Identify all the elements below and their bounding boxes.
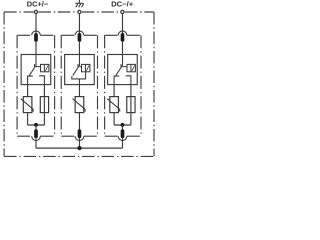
module 3 bottom plug arc (118, 136, 127, 140)
branch wires out of box 3 (113, 85, 115, 97)
thermal disconnector F1 top (black) (34, 33, 38, 42)
terminal DC+/- (34, 10, 37, 13)
thermal disconnector bottom 2 (black) (78, 129, 82, 138)
module 2 top plug arc (75, 31, 84, 35)
thermal disconnector bottom 3 (black) (121, 129, 125, 138)
wire to switch box 1 (35, 42, 37, 55)
node module 1 (34, 123, 38, 127)
right contact hook 3 (126, 76, 131, 85)
module 1 top plug arc (32, 31, 41, 35)
module 2 dash-dot boundary with plug arcs (61, 35, 97, 136)
common earth bus (36, 147, 123, 149)
wire into switch 3 (122, 55, 124, 66)
fuse link to mini fuse 1 (36, 66, 41, 68)
mini fuse body 2 (82, 64, 90, 71)
switch blade 3 (116, 65, 123, 76)
wire to lower disconnector 1 (35, 125, 37, 131)
ground / earth symbol (PE, center top) (75, 0, 83, 7)
branch wires out of box 1 (27, 85, 29, 97)
thermal disconnector bottom 1 (black) (34, 129, 38, 138)
varistor RV1 (23, 97, 32, 113)
svg-text:DC−/+: DC−/+ (111, 0, 134, 9)
left contact hook 3 (114, 76, 119, 85)
terminal PE (78, 10, 81, 13)
fuse link to mini fuse 2 (79, 66, 81, 68)
mini fuse body 3 (127, 64, 135, 71)
outer enclosure dash-dot border (4, 12, 154, 156)
wire to lower disconnector 3 (122, 125, 124, 131)
wire into switch 2 (78, 55, 80, 66)
module 2 bottom plug arc (75, 136, 84, 140)
fuse link to mini fuse 3 (123, 66, 128, 68)
join bar module 3 (114, 124, 131, 126)
wire below varistor 3 (113, 113, 115, 125)
thermal disconnector top 3 (black) (121, 33, 125, 42)
SCI switch/fuse box 3 (108, 55, 138, 85)
wire PE terminal to module 2 (78, 14, 80, 35)
switch contact tick 1 (34, 64, 36, 67)
wire to switch box 3 (122, 42, 124, 55)
wire terminal to module 3 (122, 14, 124, 35)
svg-text:DC+/−: DC+/− (27, 0, 49, 9)
thermal disconnector top 2 (black) (78, 33, 82, 42)
SCI switch/fuse box 1 (21, 55, 51, 85)
switch blade 2 (73, 65, 80, 76)
module 1 bottom plug arc (32, 136, 41, 140)
left contact leg 2 (72, 72, 86, 79)
wire to switch box 2 (78, 42, 80, 55)
switch contact tick 2 (77, 64, 79, 67)
wire below varistor 1 (27, 113, 29, 125)
wire module 3 to bus (122, 138, 124, 148)
terminal DC-/+ (121, 10, 124, 13)
output wire of box 2 (78, 79, 80, 97)
varistor RV2 (75, 97, 84, 113)
module 3 dash-dot boundary with plug arcs (105, 35, 141, 136)
right contact hook 1 (39, 76, 44, 85)
wire module 2 to bus (78, 138, 80, 148)
wire module 1 to bus (35, 138, 37, 148)
node module 3 (121, 123, 125, 127)
wire below varistor 2 (78, 113, 80, 131)
join bar module 1 (28, 124, 45, 126)
SCI switch/fuse box 2 (65, 55, 95, 85)
varistor RV3 (110, 97, 119, 113)
left contact hook 1 (28, 76, 33, 85)
switch contact tick 3 (120, 64, 122, 67)
module 1 dash-dot boundary with plug arcs (17, 35, 55, 136)
mini fuse body 1 (41, 64, 49, 71)
bus node (to PE) (77, 146, 81, 150)
switch blade 1 (29, 65, 36, 76)
fuse F11 (right branch) (40, 97, 48, 113)
fuse F31 (right branch) (127, 97, 135, 113)
wire into switch 1 (35, 55, 37, 66)
wire terminal to module 1 (35, 14, 37, 35)
module 3 top plug arc (118, 31, 127, 35)
